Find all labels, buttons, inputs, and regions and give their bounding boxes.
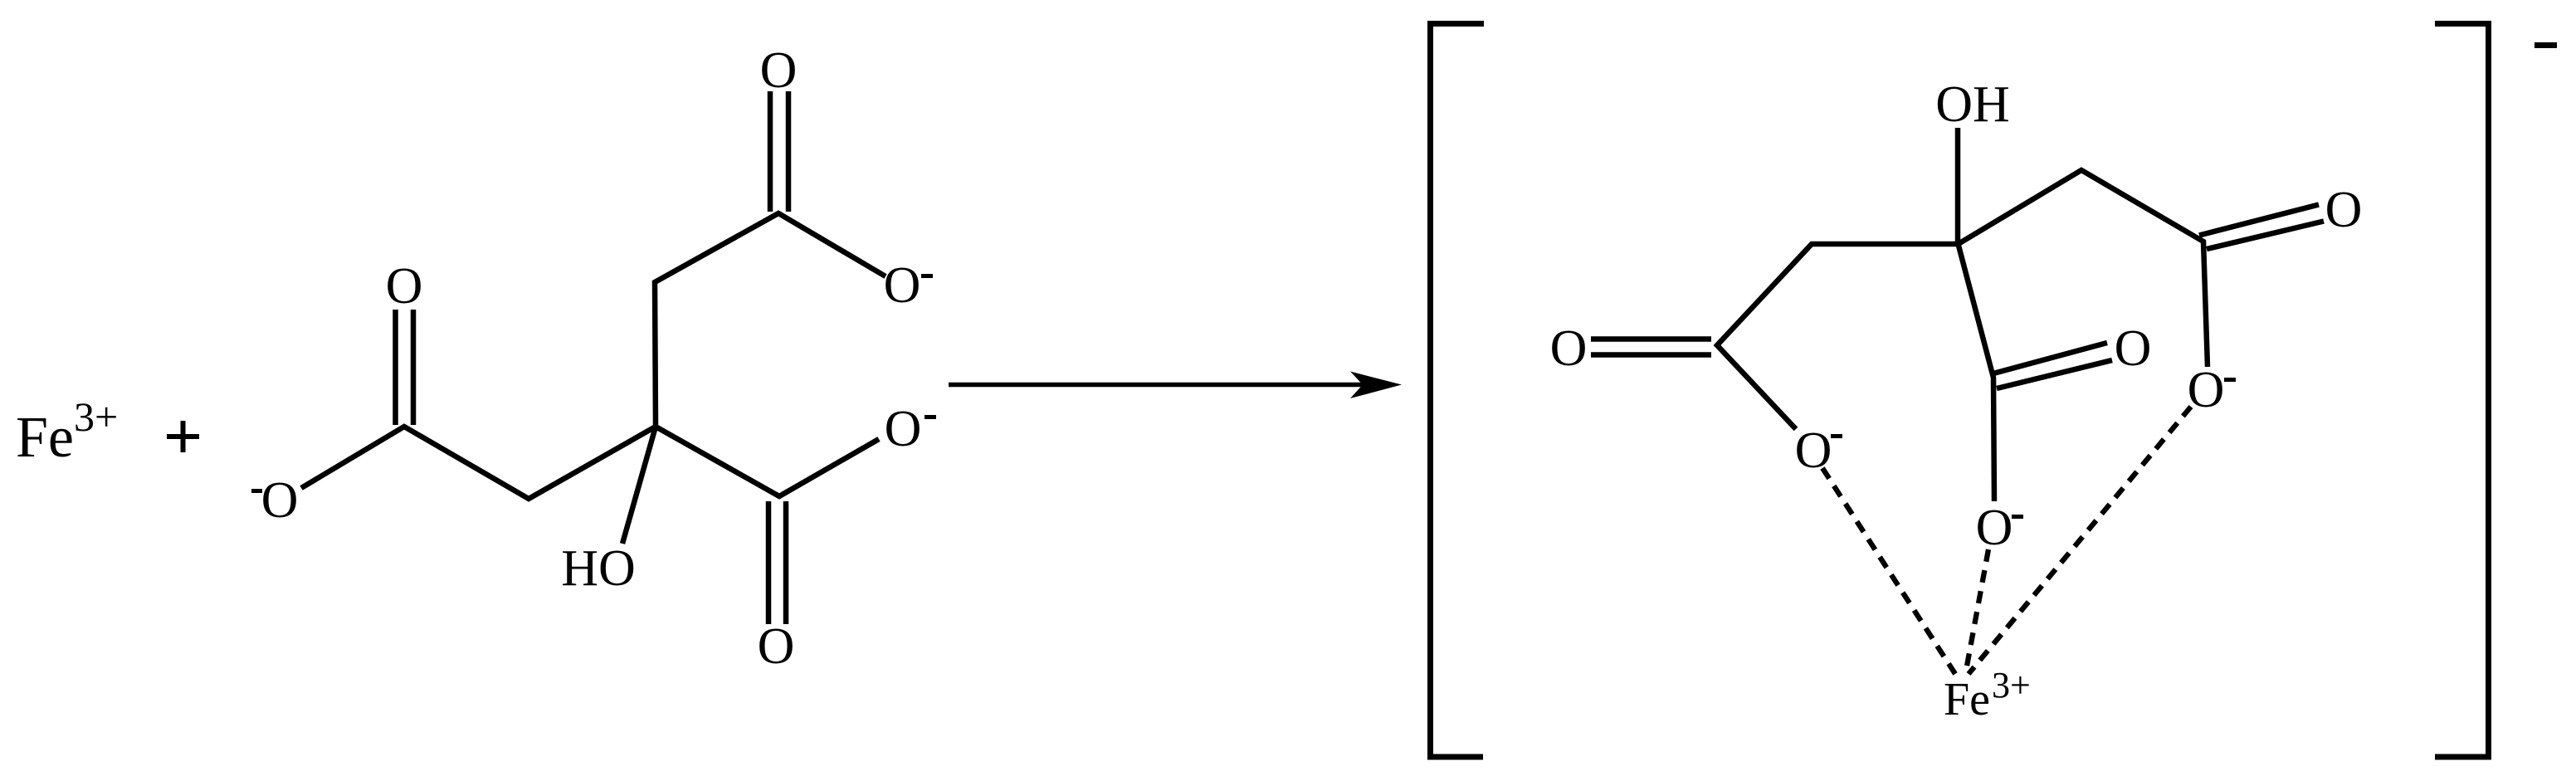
charge minus right complex	[2224, 378, 2236, 382]
bond double left carboxyl line a	[1591, 336, 1711, 342]
wire Cq to middle carboxyl to Oc	[1959, 244, 1995, 501]
svg-text:O: O	[1550, 320, 1588, 377]
dashed coordination bond middle O-minus to Fe	[1966, 549, 1988, 671]
plus sign vertical	[181, 421, 186, 452]
plus sign horizontal	[167, 434, 199, 439]
left bracket	[1431, 24, 1485, 758]
charge minus left complex	[1831, 434, 1842, 438]
dashed coordination bond left O-minus to Fe	[1822, 468, 1955, 674]
reaction arrow shaft	[949, 383, 1369, 388]
svg-text:O: O	[2325, 182, 2363, 238]
charge minus left	[251, 489, 262, 493]
svg-text:OH: OH	[1935, 76, 2010, 133]
svg-text:3+: 3+	[74, 393, 118, 440]
bond double middle carboxyl line b	[1997, 360, 2112, 388]
bond double C1=O top left line	[768, 91, 773, 212]
svg-text:O: O	[758, 618, 795, 675]
bond double C3=O left carboxyl line a	[393, 310, 398, 425]
svg-text:O: O	[2188, 362, 2225, 418]
dashed coordination bond right O-minus to Fe	[1969, 407, 2191, 674]
svg-text:O: O	[261, 472, 299, 529]
wire citrate chain O-minus/C1/CH2/Cq/CH2/C3/O-minus	[301, 213, 885, 499]
bond double C3=O left carboxyl line b	[411, 310, 417, 425]
charge minus right	[925, 415, 936, 419]
svg-text:O: O	[386, 258, 423, 315]
svg-text:O: O	[1976, 500, 2013, 556]
bond double right carboxyl line a	[2199, 205, 2319, 236]
charge minus middle complex	[2012, 515, 2023, 519]
charge minus top right	[921, 274, 933, 278]
reaction arrow head	[1350, 372, 1402, 399]
svg-text:HO: HO	[561, 540, 636, 597]
wire HO-Cq-C2-Ominus	[622, 427, 879, 544]
svg-text:O: O	[884, 257, 921, 314]
bond OH to central carbon	[1955, 128, 1961, 244]
svg-text:O: O	[2115, 320, 2152, 377]
svg-text:O: O	[885, 401, 922, 457]
bond double middle carboxyl line a	[1993, 343, 2107, 373]
svg-text:Fe: Fe	[16, 406, 74, 470]
bond double left carboxyl line b	[1591, 352, 1711, 358]
svg-text:O: O	[760, 42, 798, 99]
bond double right carboxyl line b	[2207, 222, 2324, 250]
svg-text:O: O	[1795, 422, 1832, 479]
bond double C1=O top right line	[786, 91, 792, 212]
bond double C2=O bottom line b	[783, 501, 789, 624]
complex charge minus	[2535, 42, 2557, 48]
bond double C2=O bottom line a	[766, 501, 772, 624]
right bracket	[2435, 24, 2489, 758]
svg-text:Fe: Fe	[1944, 674, 1990, 725]
wire complex chain Oa/Cleft/bend/Cq/CH2/Cright/Ob	[1717, 170, 2208, 429]
svg-text:3+: 3+	[1992, 665, 2031, 705]
